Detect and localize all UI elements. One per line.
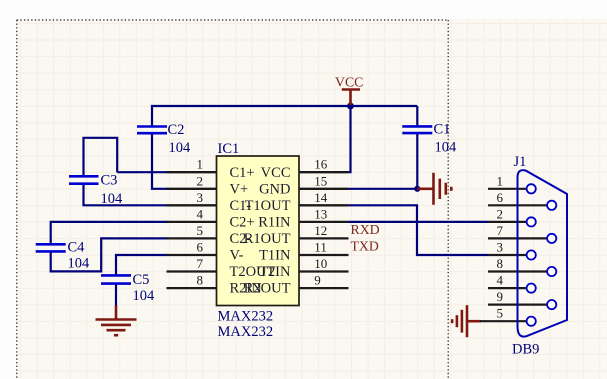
svg-text:C1+: C1+ (230, 165, 255, 181)
capacitor C2 plates (137, 127, 167, 134)
DB9 pin 2 stub (488, 221, 527, 223)
svg-text:104: 104 (169, 140, 192, 156)
svg-text:3: 3 (197, 190, 204, 205)
svg-text:2: 2 (197, 173, 204, 188)
wire pin15 row to junction (349, 188, 418, 190)
DB9 pin 7 circle (547, 234, 556, 243)
pin 15 stub (299, 188, 349, 190)
wire C5 bottom toward ground (115, 284, 117, 307)
pin 11 stub (299, 254, 349, 256)
pin 6 stub (167, 254, 217, 256)
DB9 pin 1 circle (527, 184, 536, 193)
svg-text:1: 1 (497, 173, 504, 188)
svg-text:6: 6 (197, 240, 204, 255)
svg-text:7: 7 (497, 223, 504, 238)
svg-text:IC1: IC1 (218, 141, 240, 157)
svg-text:R1IN: R1IN (258, 215, 291, 231)
svg-text:7: 7 (197, 256, 204, 271)
pin 1 stub (167, 171, 217, 173)
ground G1 (right of C1, pin15 net) (417, 173, 451, 205)
pin 10 stub (299, 270, 349, 272)
svg-text:C2+: C2+ (230, 215, 255, 231)
wire VCC junction to C1 vertical top (416, 106, 418, 126)
pin 9 stub (299, 287, 349, 289)
svg-text:104: 104 (133, 288, 156, 304)
ground G2 (DB9 pin5 net) (452, 305, 481, 337)
svg-text:5: 5 (497, 306, 504, 321)
pin names right column (244, 165, 291, 297)
capacitor C5 plates (101, 275, 131, 283)
IC IC1 body (217, 156, 300, 306)
svg-text:J1: J1 (514, 154, 527, 170)
svg-text:8: 8 (197, 273, 204, 288)
DB9 pin circles column 1 (527, 184, 557, 326)
pin stubs left (pins 1-8) (167, 172, 349, 288)
capacitor C4 plates (36, 244, 66, 251)
svg-text:16: 16 (314, 157, 328, 172)
svg-text:12: 12 (314, 223, 327, 238)
wire pin16 to VCC rail (349, 106, 351, 172)
DB9 pin 9 stub (488, 304, 547, 306)
svg-text:5: 5 (197, 223, 204, 238)
svg-text:V-: V- (230, 248, 244, 264)
svg-text:104: 104 (101, 191, 124, 207)
pin 12 stub (299, 237, 349, 239)
svg-text:VCC: VCC (335, 75, 363, 90)
svg-text:C3: C3 (101, 173, 118, 189)
pin 8 stub (167, 287, 217, 289)
capacitor C1 plates (402, 126, 432, 133)
DB9 pin 1 stub (488, 188, 527, 190)
wire pin14 to DB9 pin3 (349, 205, 489, 255)
wire pin1 row from C3 bracket (117, 171, 167, 173)
svg-text:C4: C4 (68, 239, 86, 255)
svg-text:T1IN: T1IN (259, 248, 291, 264)
DB9 pin 8 circle (547, 267, 556, 276)
svg-text:C1: C1 (434, 122, 451, 138)
svg-text:104: 104 (68, 255, 91, 271)
wire C2 bottom vertical to pin2 row (152, 133, 168, 189)
pin 3 stub (167, 204, 217, 206)
pin numbers right (314, 157, 328, 288)
svg-text:VCC: VCC (261, 165, 291, 181)
svg-text:TXD: TXD (351, 238, 379, 253)
svg-text:MAX232: MAX232 (218, 309, 274, 325)
svg-text:RXD: RXD (351, 222, 380, 237)
pin 7 stub (167, 270, 217, 272)
svg-text:1: 1 (197, 157, 204, 172)
svg-text:V+: V+ (230, 181, 249, 197)
wire C3 bottom to pin3 row (84, 184, 168, 206)
pin numbers left (197, 157, 204, 288)
svg-text:DB9: DB9 (512, 342, 539, 358)
svg-text:9: 9 (497, 289, 504, 304)
svg-text:T1OUT: T1OUT (245, 198, 291, 214)
svg-text:MAX232: MAX232 (218, 324, 274, 340)
svg-text:13: 13 (314, 206, 327, 221)
DB9 pin 9 circle (547, 300, 556, 309)
svg-text:10: 10 (314, 256, 327, 271)
J1 DB9 stubs (480, 189, 547, 321)
wire VCC rail top (152, 106, 417, 107)
svg-text:8: 8 (497, 256, 504, 271)
DB9 pin numbers (497, 173, 504, 320)
svg-text:3: 3 (497, 240, 504, 255)
svg-text:GND: GND (259, 181, 290, 197)
DB9 pin 7 stub (488, 237, 547, 239)
wire C3 bracket top (84, 138, 118, 177)
pin 16 stub (299, 171, 349, 173)
junction at pin15 / C1 / ground (414, 186, 420, 192)
pin 4 stub (167, 221, 217, 223)
svg-text:15: 15 (314, 173, 327, 188)
pin names left column (230, 165, 276, 297)
DB9 pin 5 stub (480, 320, 527, 322)
ground G3 (below C5) (96, 306, 137, 336)
svg-text:T2IN: T2IN (259, 264, 291, 280)
wire C4 bottom loop to pin5 row (51, 238, 168, 271)
capacitor C3 plates (69, 176, 99, 183)
svg-text:C5: C5 (133, 272, 150, 288)
sheet dotted border (17, 20, 448, 379)
svg-text:R1OUT: R1OUT (244, 231, 291, 247)
DB9 pin 2 circle (527, 217, 536, 226)
svg-text:6: 6 (497, 190, 504, 205)
svg-text:14: 14 (314, 190, 328, 205)
pin 14 stub (299, 204, 349, 206)
DB9 pin 4 stub (488, 287, 527, 289)
junction at VCC rail (347, 103, 354, 110)
wire pin4 row to C4 (51, 222, 168, 244)
wire pin13 to DB9 pin2 (349, 221, 489, 223)
DB9 pin 4 circle (527, 284, 536, 293)
pin 5 stub (167, 237, 217, 239)
pin 2 stub (167, 188, 217, 190)
DB9 pin 3 circle (527, 250, 536, 259)
svg-text:104: 104 (435, 139, 458, 155)
wire pin6 row to C5 (116, 255, 168, 275)
svg-text:C2: C2 (168, 122, 185, 138)
DB9 pin 6 circle (547, 201, 556, 210)
DB9 pin 8 stub (488, 270, 547, 272)
VCC power port (342, 90, 360, 106)
J1 connector body outline (518, 170, 568, 336)
svg-text:9: 9 (314, 273, 321, 288)
svg-text:4: 4 (497, 273, 504, 288)
wire C2 top vertical (151, 106, 153, 127)
DB9 pin 5 circle (527, 317, 536, 326)
DB9 pin 6 stub (488, 204, 547, 206)
wire C1 bottom vertical (416, 133, 418, 189)
svg-text:R2OUT: R2OUT (244, 281, 291, 297)
svg-text:2: 2 (497, 206, 504, 221)
svg-text:11: 11 (314, 240, 327, 255)
DB9 pin 3 stub (488, 254, 527, 256)
svg-text:4: 4 (197, 206, 204, 221)
pin 13 stub (299, 221, 349, 223)
